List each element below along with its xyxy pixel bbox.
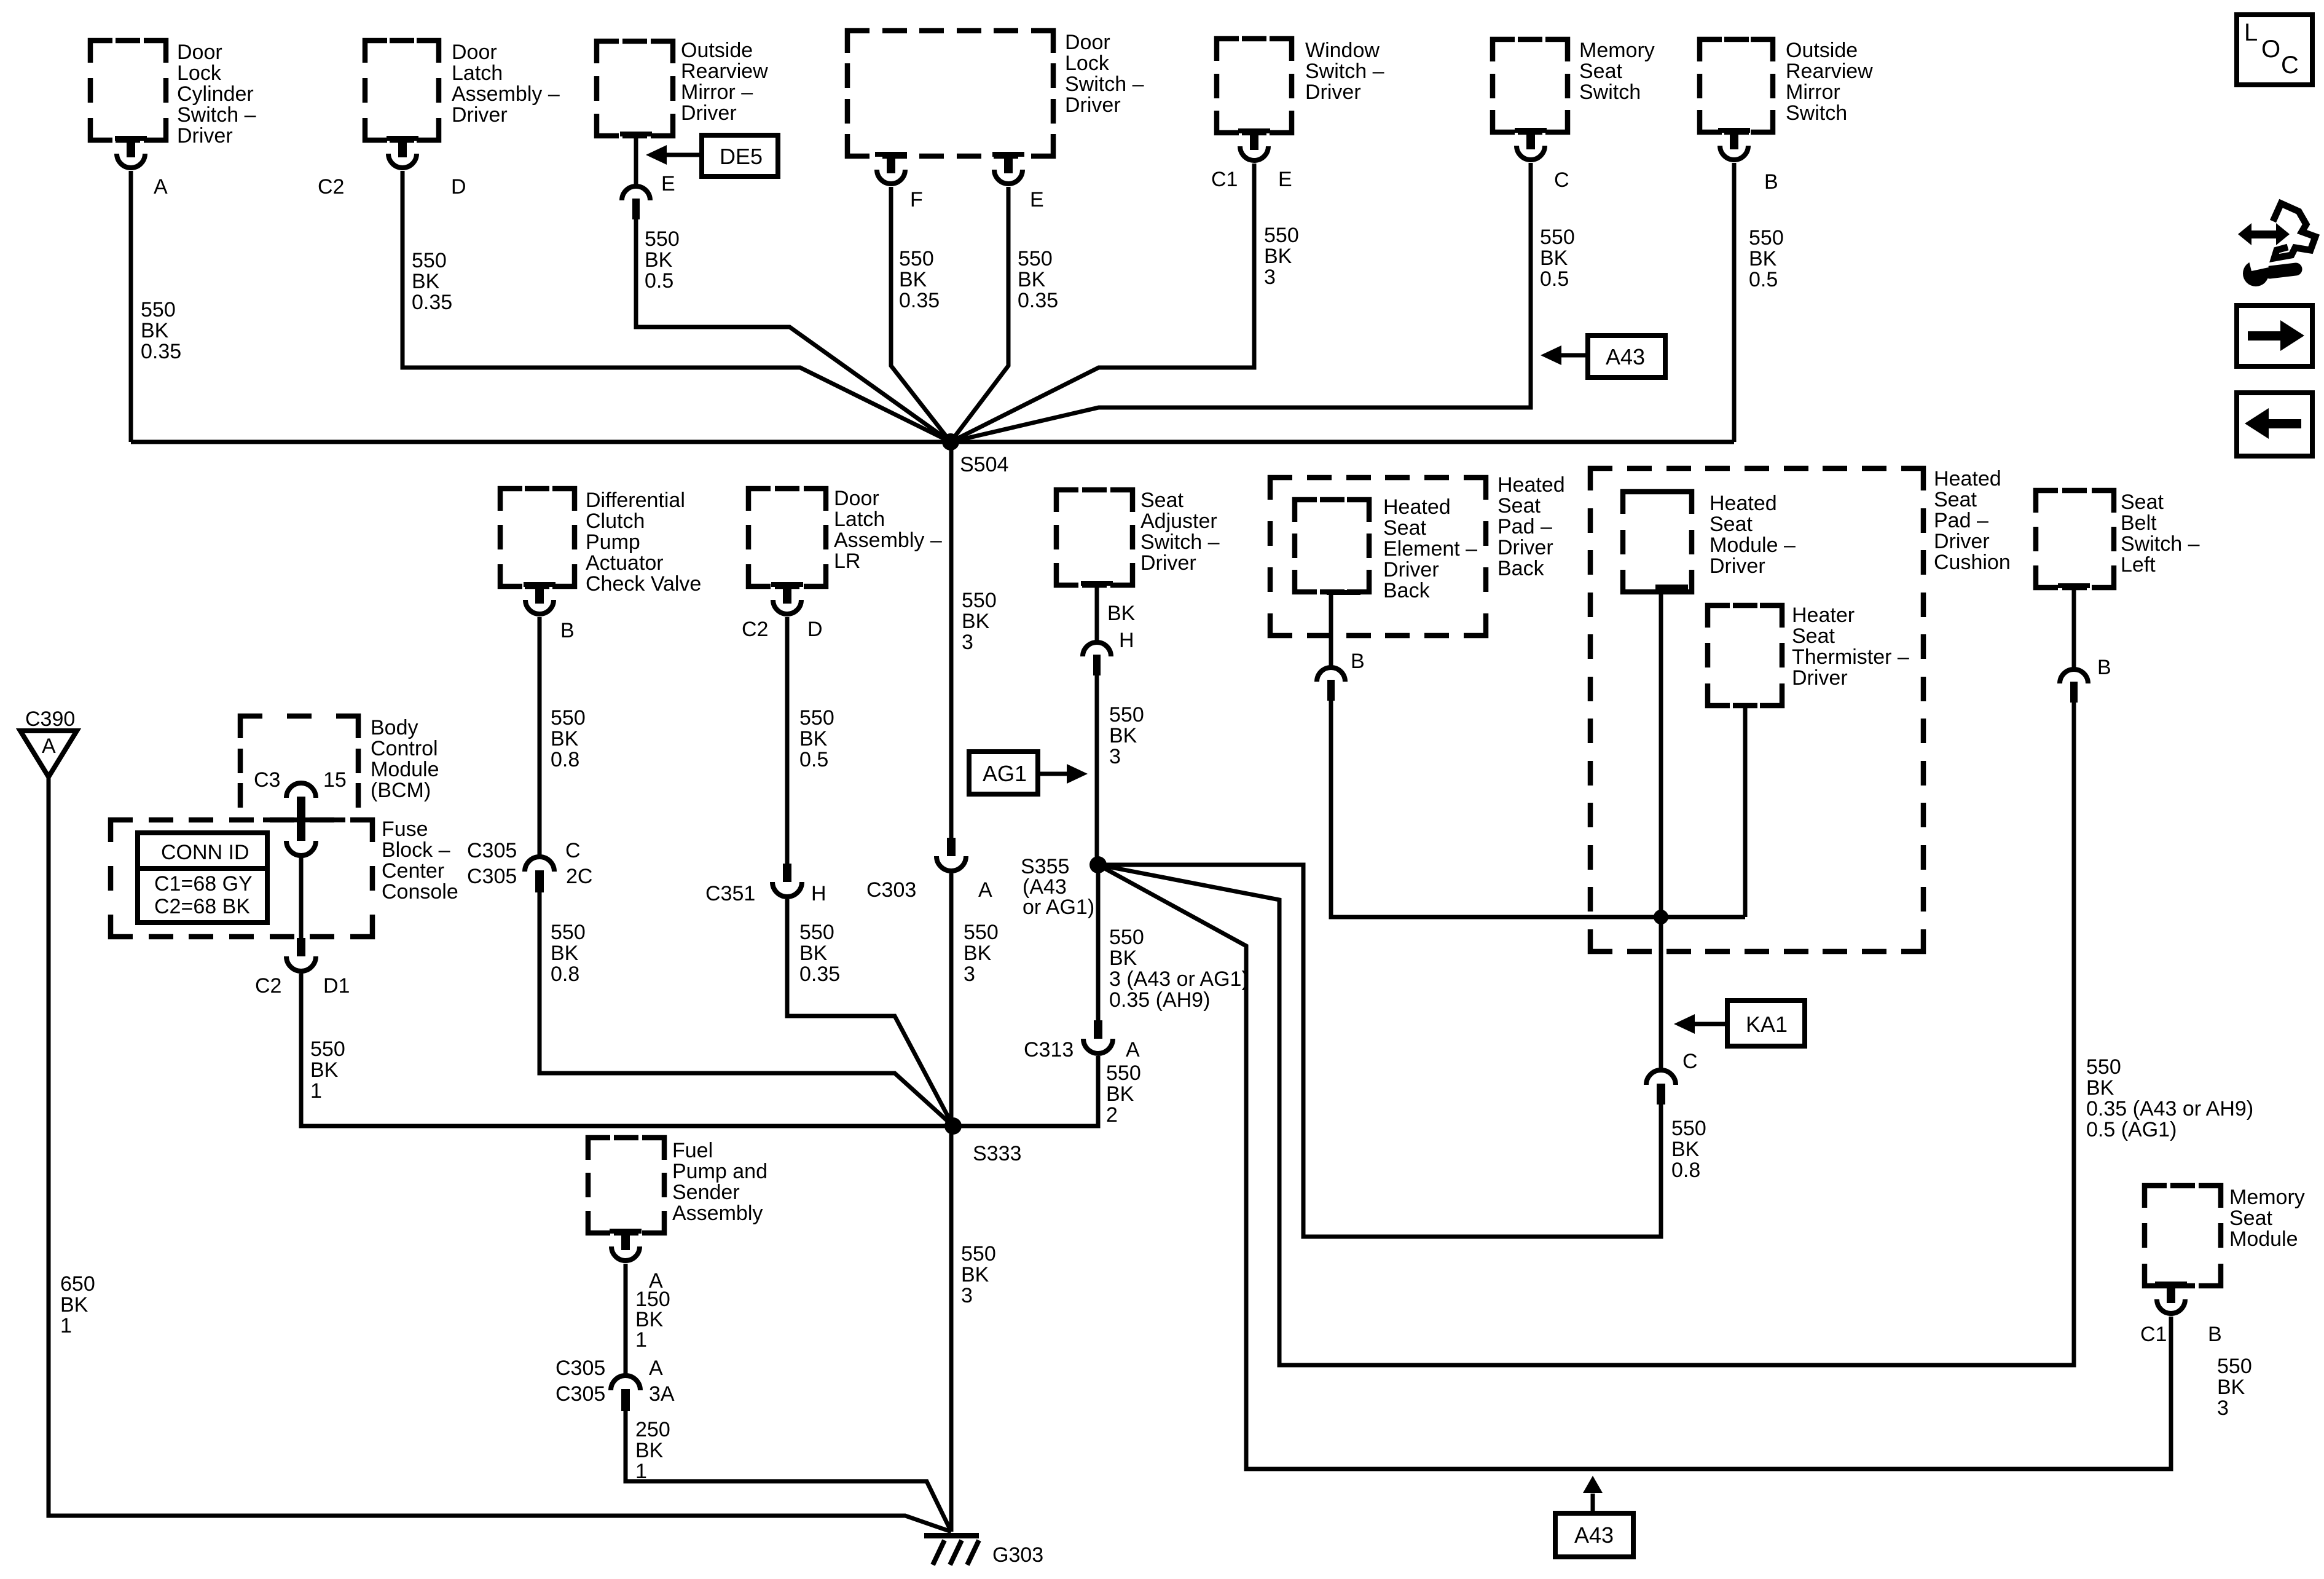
svg-text:Seat: Seat xyxy=(1498,494,1541,518)
svg-text:250: 250 xyxy=(635,1418,670,1441)
svg-text:Check Valve: Check Valve xyxy=(586,572,701,596)
node S333 splice xyxy=(944,1117,1021,1165)
svg-text:3: 3 xyxy=(961,1284,973,1307)
svg-text:Seat: Seat xyxy=(2121,490,2164,514)
svg-text:Fuse: Fuse xyxy=(382,817,428,841)
svg-text:Memory: Memory xyxy=(1579,39,1655,62)
svg-text:Driver: Driver xyxy=(452,103,508,127)
svg-text:Console: Console xyxy=(382,880,458,904)
pin A of door lock cylinder switch xyxy=(115,136,168,199)
wire module pin C to S355 top branch xyxy=(1098,865,1661,1237)
svg-text:Driver: Driver xyxy=(1934,530,1990,553)
value label 550 BK 0.35 xyxy=(799,921,840,986)
pin C1 B of memory seat module xyxy=(2140,1282,2222,1346)
wire door lock switch F to S504 xyxy=(891,187,951,442)
previous page left arrow icon box xyxy=(2237,393,2312,456)
svg-text:L: L xyxy=(2244,19,2258,46)
next page right arrow icon box xyxy=(2237,305,2312,366)
svg-text:Clutch: Clutch xyxy=(586,510,645,533)
svg-text:550: 550 xyxy=(1018,247,1053,270)
connector C390 triangle pin A xyxy=(20,707,77,777)
svg-text:Center: Center xyxy=(382,859,444,883)
value label 550 BK 3 xyxy=(1264,224,1299,289)
pin BK H of seat adjuster switch xyxy=(1081,581,1136,675)
svg-text:BK: BK xyxy=(551,727,579,750)
wire memory seat switch C to S504 xyxy=(951,163,1531,442)
circuit reference KA1 arrow box pointing at module wire xyxy=(1674,1001,1805,1046)
svg-text:Mirror: Mirror xyxy=(1786,81,1840,104)
connector C303 pin A xyxy=(866,838,992,902)
circuit reference DE5 arrow box xyxy=(646,135,778,176)
wire door latch LR D down to C351 xyxy=(785,617,790,864)
svg-text:0.35: 0.35 xyxy=(412,291,452,314)
svg-text:or AG1): or AG1) xyxy=(1023,896,1094,919)
value label 550 BK 0.8 xyxy=(551,921,586,986)
svg-text:O: O xyxy=(2261,36,2280,63)
svg-text:BK: BK xyxy=(1540,246,1568,270)
LOC legend box icon xyxy=(2237,15,2312,85)
wire door lock cylinder switch A to S504 xyxy=(129,171,133,442)
svg-text:Module: Module xyxy=(371,758,439,781)
svg-text:BK: BK xyxy=(1109,947,1137,970)
svg-text:3 (A43 or AG1): 3 (A43 or AG1) xyxy=(1109,967,1249,991)
wire S355 down to C313 xyxy=(1096,865,1101,1022)
svg-text:1: 1 xyxy=(635,1460,647,1483)
svg-text:0.35 (A43 or AH9): 0.35 (A43 or AH9) xyxy=(2086,1097,2253,1120)
value label 550 BK 0.8 xyxy=(1671,1117,1706,1182)
svg-text:S504: S504 xyxy=(960,453,1008,476)
pin F of door lock switch xyxy=(875,152,923,211)
svg-text:CONN ID: CONN ID xyxy=(161,841,249,864)
svg-text:Sender: Sender xyxy=(672,1181,740,1204)
svg-text:A: A xyxy=(42,734,56,758)
svg-text:Left: Left xyxy=(2121,553,2156,577)
svg-text:BK: BK xyxy=(899,268,927,291)
svg-text:Door: Door xyxy=(452,41,497,64)
svg-text:BK: BK xyxy=(962,610,990,633)
wire main ground bus through S504 xyxy=(131,440,1734,444)
wire door lock switch E to S504 xyxy=(951,187,1008,442)
svg-text:Module –: Module – xyxy=(1710,534,1796,557)
pin C2 D1 of fuse block xyxy=(255,938,350,998)
svg-text:A: A xyxy=(649,1357,663,1380)
svg-text:Element –: Element – xyxy=(1383,537,1477,561)
svg-text:S333: S333 xyxy=(973,1142,1021,1165)
wire C305 3A to ground G303 xyxy=(626,1411,951,1532)
svg-text:BK: BK xyxy=(412,270,440,293)
wire seat belt switch B to S355 diagonal branch xyxy=(1098,703,2074,1365)
svg-text:KA1: KA1 xyxy=(1746,1012,1788,1037)
svg-text:550: 550 xyxy=(964,921,999,944)
svg-text:D: D xyxy=(807,618,823,641)
svg-text:Memory: Memory xyxy=(2229,1186,2305,1209)
value label 550 BK 0.5 xyxy=(799,706,834,771)
svg-text:Driver: Driver xyxy=(1792,666,1848,690)
svg-text:Window: Window xyxy=(1305,39,1380,62)
svg-text:0.35 (AH9): 0.35 (AH9) xyxy=(1109,988,1210,1012)
svg-text:Belt: Belt xyxy=(2121,511,2157,535)
svg-text:550: 550 xyxy=(1671,1117,1706,1140)
svg-text:Seat: Seat xyxy=(1140,489,1184,512)
wire C390 A to ground G303 xyxy=(49,777,951,1532)
svg-text:Assembly –: Assembly – xyxy=(452,82,560,106)
svg-text:3: 3 xyxy=(1109,745,1121,768)
pin of heated seat module xyxy=(1655,585,1688,589)
svg-text:550: 550 xyxy=(899,247,934,270)
junction of module element and thermister wires xyxy=(1654,910,1668,924)
svg-text:D1: D1 xyxy=(323,974,350,998)
value label 550 BK 0.35 xyxy=(412,249,452,314)
svg-text:BK: BK xyxy=(1107,602,1136,625)
svg-text:0.35: 0.35 xyxy=(141,340,181,363)
component Fuse Block - Center Console xyxy=(111,817,458,937)
svg-text:Seat: Seat xyxy=(1934,488,1977,511)
svg-text:E: E xyxy=(1278,168,1292,191)
wire fuel pump A down to C305 xyxy=(624,1264,628,1377)
svg-text:C305: C305 xyxy=(555,1382,605,1406)
wire BCM 15 through fuse block to pin D1 xyxy=(299,856,304,938)
svg-text:B: B xyxy=(560,619,575,642)
svg-text:C303: C303 xyxy=(866,878,916,902)
svg-text:Driver: Driver xyxy=(1498,536,1553,559)
svg-text:E: E xyxy=(661,172,675,195)
component Heated Seat Module - Driver (inner dashed box) xyxy=(1623,492,1796,592)
svg-text:550: 550 xyxy=(1106,1061,1141,1085)
svg-text:C2=68 BK: C2=68 BK xyxy=(154,895,250,918)
svg-text:H: H xyxy=(1119,629,1134,652)
svg-text:C305: C305 xyxy=(467,839,517,862)
CONN ID table xyxy=(138,833,267,923)
value label 550 BK 3 xyxy=(2217,1355,2252,1420)
svg-text:Back: Back xyxy=(1498,557,1545,580)
wire outside rearview mirror switch B to S504 xyxy=(1732,163,1737,442)
svg-text:3: 3 xyxy=(962,631,973,654)
svg-text:BK: BK xyxy=(799,727,828,750)
svg-text:C2: C2 xyxy=(742,618,768,641)
svg-text:BK: BK xyxy=(1264,245,1292,268)
component Heated Seat Pad - Driver Cushion (outer dashed box) xyxy=(1590,467,2011,951)
connector C305 C / 2C xyxy=(467,839,592,892)
connector C351 pin H xyxy=(705,864,826,905)
svg-text:3: 3 xyxy=(964,963,975,986)
svg-text:Door: Door xyxy=(177,41,222,64)
wire window switch E to S504 xyxy=(951,163,1254,442)
svg-text:Differential: Differential xyxy=(586,489,685,512)
svg-text:Driver: Driver xyxy=(1710,554,1765,578)
svg-text:C305: C305 xyxy=(467,865,517,888)
component Fuel Pump and Sender Assembly xyxy=(588,1138,767,1233)
value label 550 BK 0.8 xyxy=(551,706,586,771)
wire C351 to S333 xyxy=(787,899,953,1126)
value label 550 BK 3 (A43 or AG1) 0.35 (AH9) xyxy=(1109,926,1249,1012)
value label 550 BK 0.5 xyxy=(1540,226,1575,291)
svg-text:550: 550 xyxy=(2086,1055,2121,1079)
svg-text:Driver: Driver xyxy=(1065,93,1121,117)
svg-text:BK: BK xyxy=(1106,1082,1134,1106)
svg-text:BK: BK xyxy=(964,942,992,965)
svg-text:1: 1 xyxy=(310,1079,322,1103)
component Outside Rearview Mirror - Driver xyxy=(597,39,768,136)
svg-text:BK: BK xyxy=(1109,724,1137,747)
svg-text:C: C xyxy=(2281,52,2299,79)
circuit reference A43 arrow box pointing at memory seat switch wire xyxy=(1541,336,1665,377)
svg-text:0.35: 0.35 xyxy=(899,289,940,312)
svg-text:AG1: AG1 xyxy=(983,761,1027,786)
component Differential Clutch Pump Actuator Check Valve xyxy=(500,489,701,596)
value label 550 BK 3 xyxy=(962,589,997,654)
svg-text:550: 550 xyxy=(1109,926,1144,949)
svg-text:C: C xyxy=(1682,1050,1698,1073)
svg-text:Seat: Seat xyxy=(1579,60,1622,83)
wire heater seat thermister to junction xyxy=(1743,706,1748,917)
wire C303 to S333 xyxy=(949,873,954,1126)
circuit reference A43 up arrow box pointing at memory seat module wire xyxy=(1555,1476,1633,1557)
svg-text:550: 550 xyxy=(551,921,586,944)
svg-text:Driver: Driver xyxy=(681,101,737,125)
value label 550 BK 2 xyxy=(1106,1061,1141,1127)
svg-text:550: 550 xyxy=(799,921,834,944)
svg-text:Driver: Driver xyxy=(1305,81,1361,104)
svg-text:3: 3 xyxy=(1264,266,1276,289)
svg-text:Body: Body xyxy=(371,716,418,739)
svg-text:Seat: Seat xyxy=(2229,1207,2272,1230)
ground G303 xyxy=(924,1533,1043,1567)
svg-text:Outside: Outside xyxy=(681,39,753,62)
value label 550 BK 3 xyxy=(961,1242,996,1307)
svg-text:Adjuster: Adjuster xyxy=(1140,510,1217,533)
svg-text:BK: BK xyxy=(635,1439,664,1462)
svg-text:Seat: Seat xyxy=(1710,513,1753,536)
svg-text:Switch –: Switch – xyxy=(1065,73,1144,96)
component Window Switch - Driver xyxy=(1217,39,1384,133)
svg-text:B: B xyxy=(1764,170,1778,194)
pin C3 15 of BCM through fuse block xyxy=(286,783,316,856)
wire seat adjuster switch H down to S355 xyxy=(1095,675,1099,865)
svg-text:0.5: 0.5 xyxy=(1749,268,1778,291)
svg-text:3: 3 xyxy=(2217,1396,2229,1420)
component Memory Seat Module xyxy=(2145,1186,2305,1286)
svg-text:A: A xyxy=(154,175,168,199)
value label 250 BK 1 xyxy=(635,1418,670,1483)
svg-text:D: D xyxy=(451,175,466,199)
svg-text:550: 550 xyxy=(799,706,834,730)
component Door Latch Assembly - Driver xyxy=(365,41,560,140)
svg-text:Control: Control xyxy=(371,737,438,760)
svg-text:LR: LR xyxy=(834,549,860,573)
svg-text:C1: C1 xyxy=(2140,1323,2167,1346)
component Door Lock Switch - Driver xyxy=(847,31,1144,156)
connector pin C of heated seat module xyxy=(1646,1050,1698,1105)
svg-text:C1=68 GY: C1=68 GY xyxy=(154,872,253,896)
svg-text:0.35: 0.35 xyxy=(1018,289,1058,312)
value label 550 BK 0.35 xyxy=(141,298,181,363)
value label 550 BK 0.35 xyxy=(899,247,940,312)
svg-text:Rearview: Rearview xyxy=(1786,60,1873,83)
svg-text:BK: BK xyxy=(961,1263,989,1286)
svg-text:Assembly –: Assembly – xyxy=(834,529,942,552)
svg-text:(BCM): (BCM) xyxy=(371,779,431,802)
svg-text:550: 550 xyxy=(961,1242,996,1266)
svg-text:C305: C305 xyxy=(555,1357,605,1380)
pin B of outside rearview mirror switch xyxy=(1718,128,1778,194)
svg-text:BK: BK xyxy=(2217,1376,2245,1399)
svg-text:A: A xyxy=(1126,1038,1140,1061)
wire heated seat module down through KA1 and pin C xyxy=(1659,589,1663,1071)
component Body Control Module (BCM) xyxy=(240,716,439,808)
svg-text:550: 550 xyxy=(310,1038,345,1061)
wire memory seat module B to S355 diagonal branch xyxy=(1098,865,2171,1469)
svg-text:Cylinder: Cylinder xyxy=(177,82,254,106)
svg-text:C: C xyxy=(565,839,581,862)
component Heated Seat Element - Driver Back (inner dashed box) xyxy=(1295,495,1477,602)
svg-text:Pump and: Pump and xyxy=(672,1160,767,1183)
svg-text:Heated: Heated xyxy=(1498,473,1565,497)
value label 550 BK 0.5 xyxy=(1749,226,1784,291)
wire C305 to S333 xyxy=(540,892,953,1126)
connector C305 pin A / 3A xyxy=(555,1357,675,1411)
svg-text:550: 550 xyxy=(1109,703,1144,726)
svg-text:0.8: 0.8 xyxy=(551,748,579,771)
component Outside Rearview Mirror Switch xyxy=(1700,39,1873,132)
svg-text:Seat: Seat xyxy=(1792,624,1835,648)
pin C of memory seat switch xyxy=(1515,128,1569,192)
svg-text:0.5: 0.5 xyxy=(645,269,673,293)
svg-text:550: 550 xyxy=(412,249,447,272)
value label 550 BK 0.35 xyxy=(1018,247,1058,312)
svg-text:BK: BK xyxy=(141,319,169,342)
svg-text:A: A xyxy=(978,878,992,902)
svg-text:Outside: Outside xyxy=(1786,39,1858,62)
svg-text:Heated: Heated xyxy=(1934,467,2001,490)
pin A of fuel pump and sender assembly xyxy=(610,1229,663,1293)
svg-text:Assembly: Assembly xyxy=(672,1202,763,1225)
value label 550 BK 3 xyxy=(964,921,999,986)
value label 150 BK 1 xyxy=(635,1288,670,1352)
svg-text:BK: BK xyxy=(1018,268,1046,291)
svg-text:Mirror –: Mirror – xyxy=(681,81,753,104)
svg-text:Switch: Switch xyxy=(1579,81,1641,104)
svg-text:H: H xyxy=(811,882,826,905)
svg-text:Latch: Latch xyxy=(452,61,503,85)
svg-text:BK: BK xyxy=(310,1058,339,1082)
wire differential clutch valve B down to C305 xyxy=(538,617,542,858)
wire outside rearview mirror E to S504 xyxy=(636,219,951,442)
pin B of heated seat element xyxy=(1317,590,1365,701)
svg-text:1: 1 xyxy=(60,1314,72,1337)
svg-text:Switch –: Switch – xyxy=(2121,532,2200,556)
pin C2 D of door latch assembly driver xyxy=(318,136,466,199)
wire S504 down to C303 and S333 xyxy=(949,442,954,838)
svg-text:Driver: Driver xyxy=(1140,551,1196,575)
svg-text:550: 550 xyxy=(551,706,586,730)
svg-text:C3: C3 xyxy=(254,768,280,792)
wire heated seat element B to heated seat module junction xyxy=(1331,701,1745,917)
svg-text:C351: C351 xyxy=(705,882,755,905)
svg-text:Cushion: Cushion xyxy=(1934,551,2011,574)
wire C313 to S333 xyxy=(953,1056,1098,1126)
svg-text:0.8: 0.8 xyxy=(1671,1159,1700,1182)
value label 550 BK 0.5 xyxy=(645,227,680,293)
wire S333 down to ground G303 xyxy=(949,1126,954,1532)
pin C1 E of window switch xyxy=(1211,128,1292,191)
svg-text:0.8: 0.8 xyxy=(551,963,579,986)
value label 550 BK 0.35 (A43 or AH9) 0.5 (AG1) xyxy=(2086,1055,2253,1141)
svg-text:Switch –: Switch – xyxy=(1140,530,1220,554)
svg-text:Heated: Heated xyxy=(1383,495,1451,519)
node S355 splice xyxy=(1021,855,1107,919)
svg-text:2C: 2C xyxy=(566,865,592,888)
svg-text:BK: BK xyxy=(799,942,828,965)
svg-text:C2: C2 xyxy=(318,175,344,199)
svg-text:A43: A43 xyxy=(1606,344,1645,369)
svg-text:0.35: 0.35 xyxy=(799,963,840,986)
svg-text:Driver: Driver xyxy=(177,124,233,148)
svg-text:Switch –: Switch – xyxy=(177,103,256,127)
svg-text:2: 2 xyxy=(1106,1103,1118,1127)
svg-text:550: 550 xyxy=(1264,224,1299,247)
svg-text:0.5: 0.5 xyxy=(1540,267,1569,291)
svg-text:C2: C2 xyxy=(255,974,281,998)
svg-text:Pump: Pump xyxy=(586,530,640,554)
svg-text:Fuel: Fuel xyxy=(672,1139,713,1162)
repair info icon with double arrow car and wrench xyxy=(2238,203,2315,286)
svg-text:G303: G303 xyxy=(992,1543,1043,1567)
svg-text:550: 550 xyxy=(645,227,680,251)
svg-text:Seat: Seat xyxy=(1383,516,1426,540)
svg-text:C313: C313 xyxy=(1024,1038,1074,1061)
value label 550 BK 3 xyxy=(1109,703,1144,768)
svg-text:550: 550 xyxy=(1540,226,1575,249)
svg-text:Pad –: Pad – xyxy=(1934,509,1988,532)
svg-text:B: B xyxy=(2208,1323,2222,1346)
pin E of outside rearview mirror driver xyxy=(620,132,675,219)
svg-text:C: C xyxy=(1554,168,1569,192)
svg-text:650: 650 xyxy=(60,1272,95,1296)
svg-text:550: 550 xyxy=(962,589,997,612)
svg-text:Driver: Driver xyxy=(1383,558,1439,581)
svg-text:Switch –: Switch – xyxy=(1305,60,1384,83)
svg-text:F: F xyxy=(910,188,923,211)
wire fuse block D1 to S333 xyxy=(301,974,953,1126)
svg-text:3A: 3A xyxy=(649,1382,675,1406)
svg-text:Module: Module xyxy=(2229,1227,2298,1251)
svg-text:C1: C1 xyxy=(1211,168,1238,191)
svg-text:B: B xyxy=(1351,650,1365,673)
svg-text:BK: BK xyxy=(1671,1138,1700,1161)
svg-text:0.5: 0.5 xyxy=(799,748,828,771)
svg-text:Rearview: Rearview xyxy=(681,60,768,83)
component Seat Belt Switch - Left xyxy=(2036,490,2200,588)
svg-text:Door: Door xyxy=(834,487,879,510)
svg-text:0.5 (AG1): 0.5 (AG1) xyxy=(2086,1118,2177,1141)
component Memory Seat Switch xyxy=(1493,39,1655,132)
node S504 splice xyxy=(942,433,1008,476)
component Heater Seat Thermister - Driver (dashed box) xyxy=(1708,604,1909,706)
svg-text:550: 550 xyxy=(2217,1355,2252,1378)
svg-text:BK: BK xyxy=(60,1293,88,1317)
pin C2 D of door latch assembly LR xyxy=(742,582,823,641)
svg-text:15: 15 xyxy=(323,768,347,792)
svg-text:Door: Door xyxy=(1065,31,1110,54)
svg-text:BK: BK xyxy=(1749,247,1777,270)
component Door Latch Assembly - LR xyxy=(748,487,942,586)
component Seat Adjuster Switch - Driver xyxy=(1056,489,1220,585)
svg-text:BK: BK xyxy=(2086,1076,2114,1100)
svg-text:Thermister –: Thermister – xyxy=(1792,645,1909,669)
circuit reference AG1 arrow box pointing at seat adjuster wire xyxy=(969,752,1088,794)
connector C313 pin A xyxy=(1024,1020,1140,1061)
value label 650 BK 1 xyxy=(60,1272,95,1337)
